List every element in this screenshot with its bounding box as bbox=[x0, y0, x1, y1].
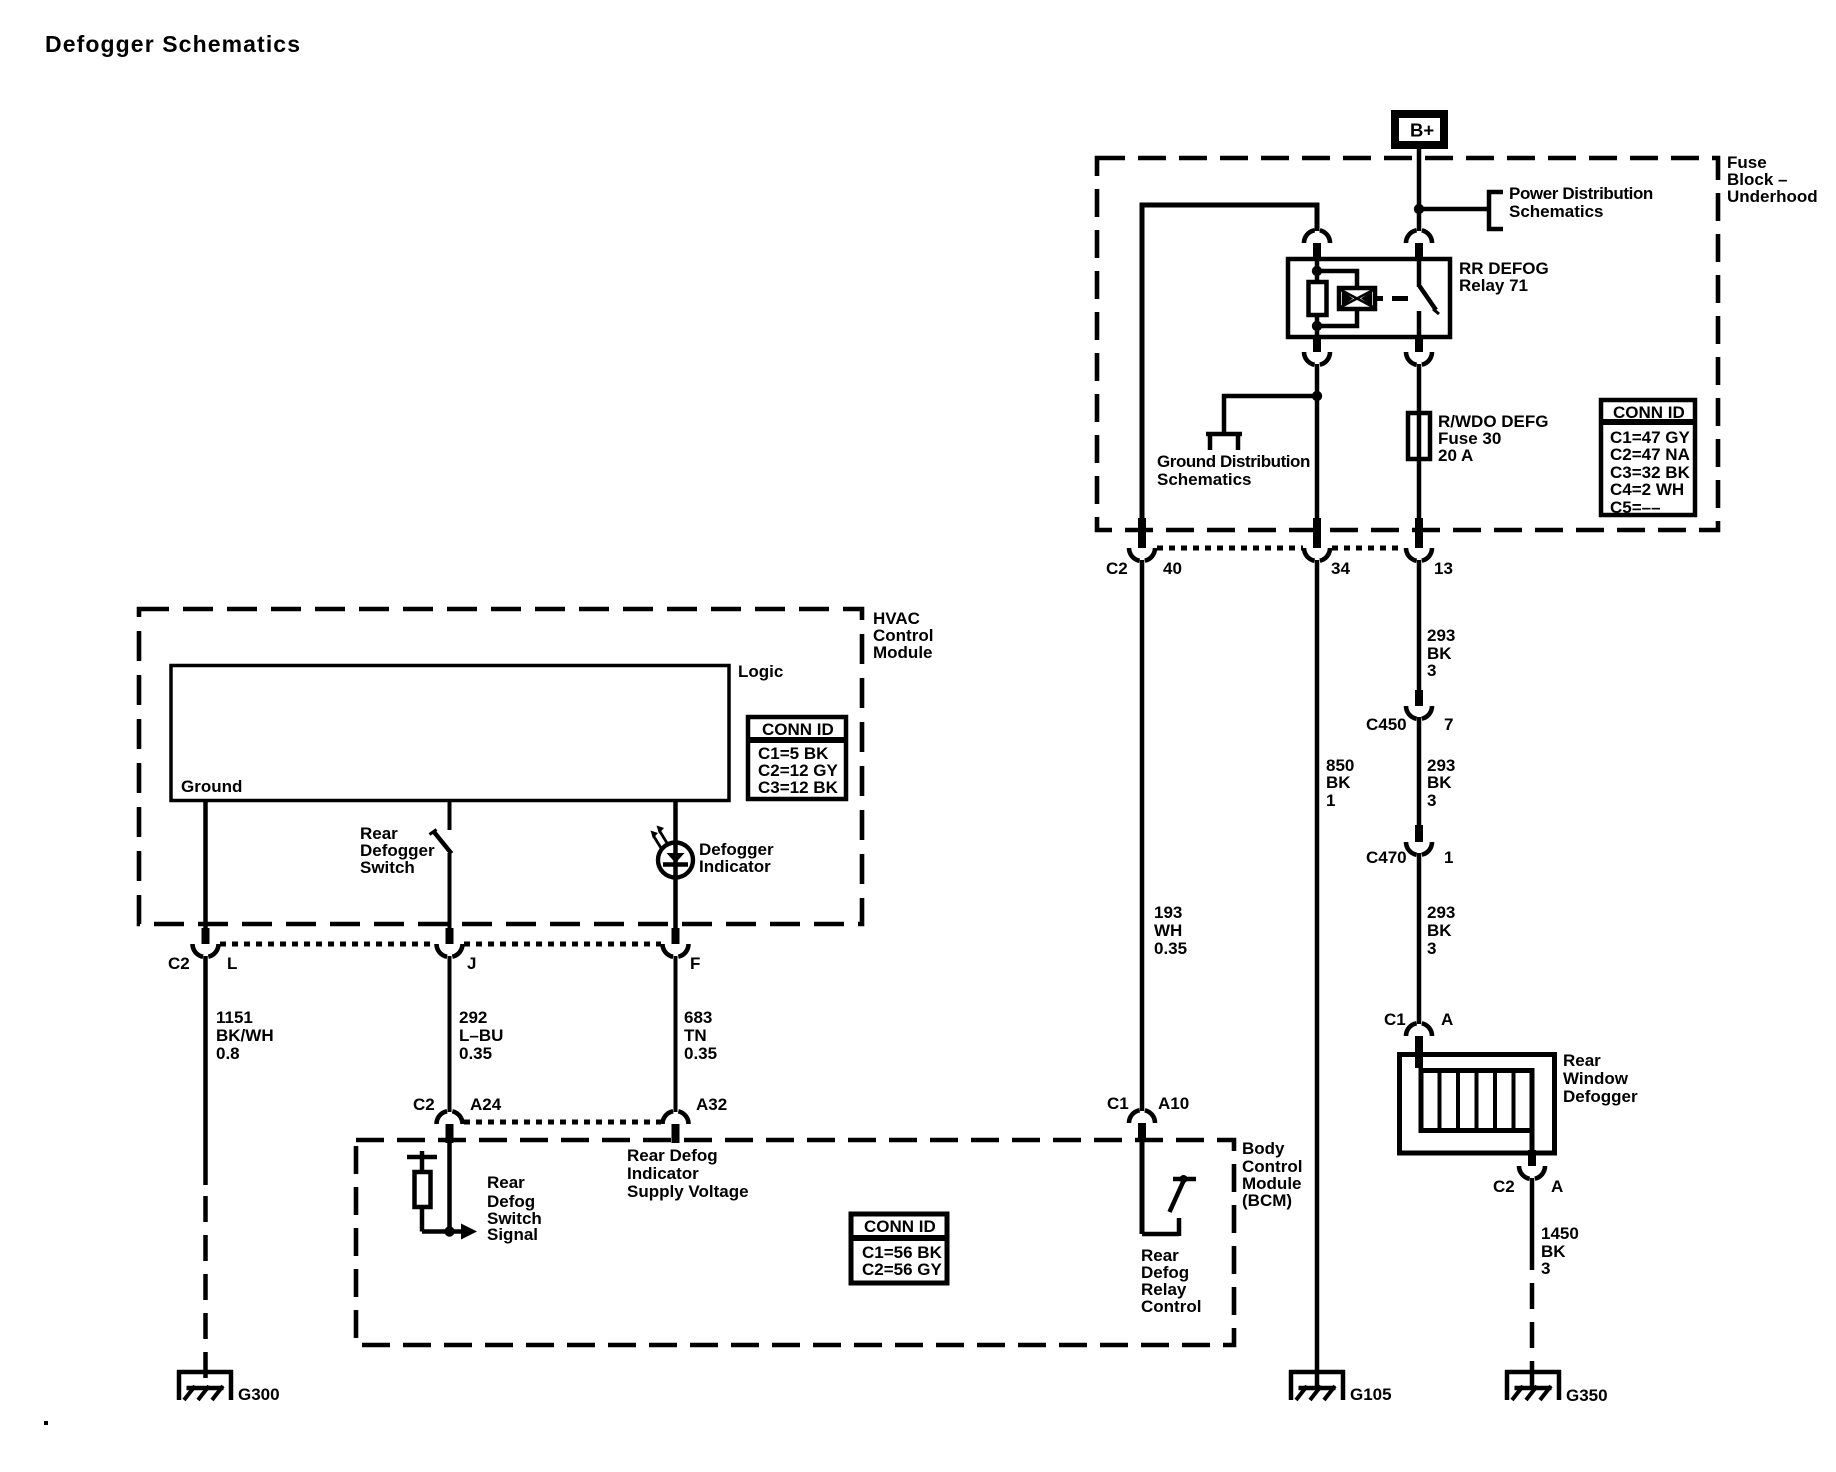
fuse 30 R/WDO DEFG bbox=[1408, 413, 1430, 459]
wire rear defogger switch upper bbox=[448, 800, 452, 830]
svg-text:Rear Defog: Rear Defog bbox=[627, 1146, 718, 1165]
wire defogger indicator pin F bbox=[673, 800, 678, 928]
label 1450 BK 3 bbox=[1541, 1224, 1579, 1278]
svg-text:C1: C1 bbox=[1107, 1094, 1129, 1113]
connector arc C2 A defogger bbox=[1519, 1166, 1545, 1179]
svg-text:Defogger Schematics: Defogger Schematics bbox=[45, 31, 301, 57]
wire 293 BK C450 to C470 bbox=[1417, 717, 1422, 825]
connector arc relay coil bottom bbox=[1304, 352, 1330, 365]
svg-text:7: 7 bbox=[1444, 715, 1453, 734]
svg-text:J: J bbox=[467, 954, 476, 973]
wire 1450 BK solid part bbox=[1530, 1178, 1535, 1270]
svg-text:F: F bbox=[690, 954, 700, 973]
svg-text:3: 3 bbox=[1427, 791, 1436, 810]
svg-text:C470: C470 bbox=[1366, 848, 1407, 867]
bracket power distribution off-page reference bbox=[1487, 190, 1503, 231]
svg-text:BK: BK bbox=[1326, 773, 1351, 792]
svg-text:1: 1 bbox=[1444, 848, 1453, 867]
label C1 A10 bbox=[1107, 1094, 1189, 1113]
wire 1151 BK/WH solid part bbox=[203, 956, 208, 1185]
label C2 L J F bbox=[168, 954, 700, 973]
relay coil element box with X bbox=[1339, 288, 1375, 309]
svg-text:Body: Body bbox=[1242, 1139, 1285, 1158]
svg-text:C5=––: C5=–– bbox=[1610, 498, 1661, 517]
wire A24 into BCM bbox=[447, 1143, 452, 1232]
connector arc relay switch bottom bbox=[1406, 352, 1432, 365]
wire top-left branch to relay coil bbox=[1142, 205, 1317, 518]
connector arc pin J bbox=[437, 944, 463, 957]
svg-text:20 A: 20 A bbox=[1438, 446, 1473, 465]
arrow rear defog switch signal bbox=[450, 1229, 464, 1234]
svg-text:1: 1 bbox=[1326, 791, 1335, 810]
wire ground pin L bbox=[203, 800, 208, 928]
svg-text:Logic: Logic bbox=[738, 662, 783, 681]
label Defogger Indicator bbox=[699, 840, 774, 876]
HVAC control module dashed box bbox=[139, 609, 862, 924]
connector line fuse block C2 bbox=[1157, 546, 1303, 551]
pin stub relay coil top bbox=[1313, 243, 1321, 260]
resistor relay coil suppression bbox=[1309, 282, 1327, 315]
svg-text:Power Distribution: Power Distribution bbox=[1509, 184, 1653, 203]
relay switch blade bbox=[1420, 286, 1437, 310]
svg-text:Ground: Ground bbox=[181, 777, 242, 796]
label 293 BK 3 lower bbox=[1427, 903, 1455, 958]
wire relay 85 down to pin 34 bbox=[1315, 364, 1320, 518]
svg-text:Defogger: Defogger bbox=[1563, 1087, 1638, 1106]
pin stub A24 bbox=[446, 1124, 454, 1143]
svg-text:293: 293 bbox=[1427, 626, 1455, 645]
svg-text:CONN ID: CONN ID bbox=[1613, 403, 1685, 422]
svg-text:Indicator: Indicator bbox=[627, 1164, 699, 1183]
label Rear Window Defogger bbox=[1563, 1051, 1638, 1106]
pin stub C450 bbox=[1415, 690, 1423, 706]
conn id table fuse block bbox=[1599, 400, 1697, 517]
wire coil bottom link bbox=[1317, 309, 1357, 326]
fuse block underhood dashed box bbox=[1097, 158, 1718, 530]
connector arc pin 13 bbox=[1406, 548, 1432, 561]
wire 850 BK from pin 34 to G105 bbox=[1315, 560, 1320, 1388]
ground G350 bbox=[1505, 1370, 1561, 1400]
connector arc pin F bbox=[663, 944, 689, 957]
wire coil armature stub bbox=[1375, 296, 1383, 301]
svg-text:3: 3 bbox=[1427, 939, 1436, 958]
svg-text:0.35: 0.35 bbox=[459, 1044, 492, 1063]
svg-text:Indicator: Indicator bbox=[699, 857, 771, 876]
svg-text:C450: C450 bbox=[1366, 715, 1407, 734]
wire coil top link bbox=[1317, 271, 1357, 288]
connector arc relay pin 86 top bbox=[1304, 230, 1330, 243]
connector arc pin 34 bbox=[1304, 548, 1330, 561]
svg-text:C2=47 NA: C2=47 NA bbox=[1610, 445, 1690, 464]
svg-text:C1: C1 bbox=[1384, 1010, 1406, 1029]
stray printed dot bottom-left bbox=[44, 1421, 48, 1425]
svg-text:A: A bbox=[1441, 1010, 1453, 1029]
svg-text:Module: Module bbox=[873, 643, 933, 662]
wire to power distribution reference bbox=[1419, 207, 1489, 212]
label Rear Defog Indicator Supply Voltage bbox=[627, 1146, 749, 1201]
connector arc A32 bbox=[663, 1111, 689, 1124]
node ground distribution branch bbox=[1312, 391, 1322, 401]
ground G105 bbox=[1289, 1370, 1345, 1400]
svg-text:C4=2 WH: C4=2 WH bbox=[1610, 480, 1684, 499]
label C1 A bbox=[1384, 1010, 1453, 1029]
svg-text:1151: 1151 bbox=[216, 1008, 253, 1027]
svg-text:BK: BK bbox=[1427, 773, 1452, 792]
pin stub A32 bbox=[672, 1124, 680, 1143]
bracket ground distribution off-page reference bbox=[1206, 432, 1242, 450]
svg-text:0.8: 0.8 bbox=[216, 1044, 240, 1063]
BCM dashed box bbox=[356, 1140, 1234, 1345]
mechanical link dash bbox=[1392, 296, 1408, 301]
wire 292 L-BU bbox=[448, 956, 452, 1112]
svg-text:193: 193 bbox=[1154, 903, 1182, 922]
svg-text:BK/WH: BK/WH bbox=[216, 1026, 274, 1045]
label C2 A bottom bbox=[1493, 1177, 1563, 1196]
label fuse 30 bbox=[1438, 412, 1549, 465]
pin stub defogger output bbox=[1528, 1150, 1536, 1166]
conn id table BCM bbox=[849, 1214, 949, 1283]
LED defogger indicator bbox=[651, 826, 694, 878]
label 292 L-BU 0.35 bbox=[459, 1008, 503, 1063]
svg-text:3: 3 bbox=[1541, 1259, 1550, 1278]
node relay coil bottom junction bbox=[1312, 321, 1322, 331]
svg-text:C2: C2 bbox=[168, 954, 190, 973]
pin stub fuse block pin 13 bbox=[1415, 518, 1423, 548]
svg-text:Schematics: Schematics bbox=[1509, 202, 1604, 221]
svg-text:C3=12 BK: C3=12 BK bbox=[758, 778, 839, 797]
connector arc pin 40 bbox=[1129, 548, 1155, 561]
svg-text:Underhood: Underhood bbox=[1727, 187, 1818, 206]
svg-text:13: 13 bbox=[1434, 559, 1453, 578]
svg-text:L–BU: L–BU bbox=[459, 1026, 503, 1045]
wire 293 BK pin 13 to C450 bbox=[1417, 560, 1422, 690]
svg-text:0.35: 0.35 bbox=[1154, 939, 1187, 958]
label Body Control Module BCM bbox=[1242, 1139, 1302, 1210]
svg-text:Signal: Signal bbox=[487, 1225, 538, 1244]
pin stub J bbox=[446, 928, 454, 944]
wire relay 30 down through fuse bbox=[1417, 364, 1422, 518]
wire 193 WH from pin 40 to BCM A10 bbox=[1140, 560, 1145, 1111]
label 850 BK 1 bbox=[1326, 756, 1354, 810]
svg-text:Relay 71: Relay 71 bbox=[1459, 276, 1528, 295]
wire defogger output bbox=[1530, 1128, 1535, 1150]
svg-text:Schematics: Schematics bbox=[1157, 470, 1252, 489]
pin stub F bbox=[672, 928, 680, 944]
wire 683 TN bbox=[674, 956, 678, 1112]
svg-text:292: 292 bbox=[459, 1008, 487, 1027]
svg-text:683: 683 bbox=[684, 1008, 712, 1027]
rear window defogger outer box bbox=[1400, 1055, 1555, 1154]
svg-text:B+: B+ bbox=[1410, 120, 1434, 141]
label Fuse Block Underhood bbox=[1727, 153, 1818, 206]
connector line BCM C2 bbox=[464, 1120, 661, 1125]
pin stub C470 bbox=[1415, 825, 1423, 842]
label Power Distribution Schematics bbox=[1509, 184, 1653, 221]
rear window defogger grid element bbox=[1421, 1070, 1532, 1131]
conn id table HVAC bbox=[746, 717, 848, 799]
svg-text:34: 34 bbox=[1331, 559, 1350, 578]
wire 1151 dashed part bbox=[203, 1196, 208, 1388]
svg-text:A10: A10 bbox=[1158, 1094, 1189, 1113]
label 683 TN 0.35 bbox=[684, 1008, 717, 1063]
svg-text:CONN ID: CONN ID bbox=[864, 1217, 936, 1236]
pin stub L bbox=[202, 928, 210, 944]
label 293 BK 3 middle bbox=[1427, 756, 1455, 810]
B+ battery terminal bbox=[1395, 114, 1444, 145]
wire A10 into BCM bbox=[1140, 1142, 1145, 1234]
svg-text:Window: Window bbox=[1563, 1069, 1629, 1088]
label Rear Defog Switch Signal bbox=[487, 1173, 542, 1244]
label HVAC Control Module bbox=[873, 609, 933, 662]
svg-text:L: L bbox=[227, 954, 237, 973]
svg-text:(BCM): (BCM) bbox=[1242, 1191, 1292, 1210]
resistor BCM pull-up bbox=[407, 1151, 450, 1232]
svg-text:G350: G350 bbox=[1566, 1386, 1608, 1405]
pin stub relay switch bottom bbox=[1415, 337, 1423, 352]
pin stub fuse block pin 34 bbox=[1313, 518, 1321, 548]
label Ground Distribution Schematics bbox=[1157, 452, 1310, 489]
label C470 1 bbox=[1366, 848, 1453, 867]
svg-text:TN: TN bbox=[684, 1026, 707, 1045]
svg-text:WH: WH bbox=[1154, 921, 1182, 940]
connector line HVAC C2 bbox=[220, 942, 436, 947]
svg-text:A32: A32 bbox=[696, 1095, 727, 1114]
svg-text:CONN ID: CONN ID bbox=[762, 720, 834, 739]
node relay coil top junction bbox=[1312, 266, 1322, 276]
wire B+ feed bbox=[1417, 149, 1422, 231]
svg-text:BK: BK bbox=[1427, 921, 1452, 940]
connector arc relay pin 30 top bbox=[1406, 230, 1432, 243]
connector arc C470 bbox=[1406, 842, 1432, 855]
wire relay coil left leg bbox=[1315, 259, 1320, 282]
svg-text:C2: C2 bbox=[1493, 1177, 1515, 1196]
svg-text:Ground Distribution: Ground Distribution bbox=[1157, 452, 1310, 471]
connector arc pin L bbox=[193, 944, 219, 957]
label Rear Defog Relay Control bbox=[1141, 1246, 1201, 1316]
svg-text:C2: C2 bbox=[413, 1095, 435, 1114]
wire 1450 BK dashed part bbox=[1530, 1283, 1535, 1388]
svg-text:Control: Control bbox=[1141, 1297, 1201, 1316]
logic box bbox=[171, 666, 729, 801]
pin stub relay coil bottom bbox=[1313, 337, 1321, 352]
wire rear defogger switch lower bbox=[448, 853, 452, 928]
label 1151 BK/WH 0.8 bbox=[216, 1008, 274, 1063]
svg-text:A24: A24 bbox=[470, 1095, 502, 1114]
connector arc C1 A10 bbox=[1129, 1110, 1155, 1123]
connector arc C450 bbox=[1406, 706, 1432, 719]
svg-text:1450: 1450 bbox=[1541, 1224, 1579, 1243]
pin stub defogger input bbox=[1415, 1036, 1423, 1068]
svg-text:Supply Voltage: Supply Voltage bbox=[627, 1182, 749, 1201]
svg-text:G300: G300 bbox=[238, 1385, 280, 1404]
relay K71 box bbox=[1288, 259, 1450, 337]
wire relay switch lower bbox=[1417, 311, 1422, 337]
svg-text:C2: C2 bbox=[1106, 559, 1128, 578]
label C2 40 34 13 bbox=[1106, 559, 1453, 578]
label 193 WH 0.35 bbox=[1154, 903, 1187, 958]
pin stub fuse block pin 40 bbox=[1138, 518, 1146, 548]
svg-text:G105: G105 bbox=[1350, 1385, 1392, 1404]
ground G300 bbox=[177, 1370, 233, 1400]
wire ground distribution branch bbox=[1224, 396, 1317, 434]
label RR DEFOG Relay 71 bbox=[1459, 259, 1549, 295]
switch rear defogger blade bbox=[434, 832, 452, 854]
wire 293 BK C470 to defogger bbox=[1417, 853, 1422, 1024]
svg-text:3: 3 bbox=[1427, 661, 1436, 680]
svg-text:Rear: Rear bbox=[487, 1173, 525, 1192]
svg-text:Rear: Rear bbox=[1563, 1051, 1601, 1070]
wire relay coil bottom leg bbox=[1315, 315, 1320, 337]
svg-text:C2=56 GY: C2=56 GY bbox=[862, 1260, 943, 1279]
svg-text:293: 293 bbox=[1427, 903, 1455, 922]
svg-text:0.35: 0.35 bbox=[684, 1044, 717, 1063]
label C2 A24 A32 bbox=[413, 1095, 727, 1114]
pin stub relay switch top bbox=[1415, 243, 1423, 260]
node rear defog switch signal junction bbox=[444, 1226, 454, 1236]
node B+ branch junction bbox=[1414, 204, 1424, 214]
svg-text:Switch: Switch bbox=[360, 858, 415, 877]
switch BCM relay driver bbox=[1142, 1179, 1196, 1236]
wire relay switch upper bbox=[1417, 259, 1422, 287]
connector arc C1 A defogger bbox=[1406, 1023, 1432, 1036]
label 293 BK 3 upper bbox=[1427, 626, 1455, 680]
svg-text:40: 40 bbox=[1163, 559, 1182, 578]
label Rear Defogger Switch bbox=[360, 824, 435, 877]
pin stub A10 bbox=[1138, 1123, 1146, 1142]
label C450 7 bbox=[1366, 715, 1453, 734]
svg-text:A: A bbox=[1551, 1177, 1563, 1196]
connector arc A24 bbox=[437, 1111, 463, 1124]
